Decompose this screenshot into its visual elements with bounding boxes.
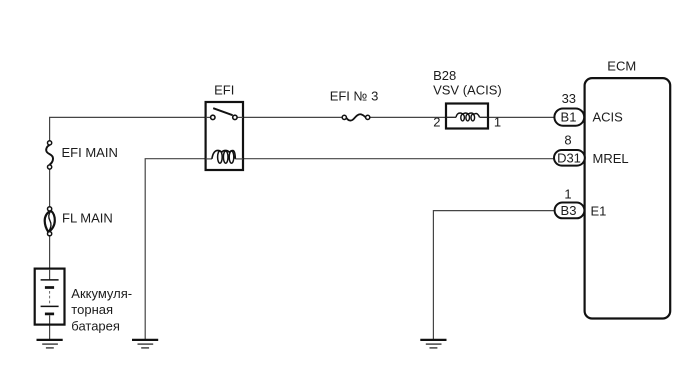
- VSV (ACIS): box: [446, 104, 488, 129]
- wire: VSV terminal 1 to ECM pin B1: [488, 116, 555, 118]
- fusible link: FL MAIN: [45, 207, 55, 236]
- svg-text:D31: D31: [557, 150, 581, 165]
- svg-text:33: 33: [562, 91, 576, 106]
- svg-text:Аккумуля-: Аккумуля-: [71, 286, 132, 301]
- svg-text:VSV (ACIS): VSV (ACIS): [433, 82, 502, 97]
- wire: battery negative to ground: [49, 325, 51, 340]
- wire: between EFI MAIN and FL MAIN fuses: [49, 169, 51, 207]
- svg-text:1: 1: [564, 187, 571, 202]
- svg-text:ECM: ECM: [607, 58, 636, 73]
- wire: relay coil to ECM pin D31: [243, 158, 554, 160]
- wire: relay contact output to fuse EFI No.3: [243, 116, 342, 118]
- svg-text:батарея: батарея: [71, 318, 120, 333]
- svg-text:B1: B1: [561, 109, 577, 124]
- svg-text:ACIS: ACIS: [593, 110, 624, 125]
- svg-text:FL MAIN: FL MAIN: [62, 211, 113, 226]
- fuse: EFI MAIN: [46, 141, 53, 169]
- wire: VSV internal stubs: [446, 116, 456, 118]
- relay EFI: switch blade: [213, 108, 232, 115]
- ground: relay coil ground: [132, 340, 158, 348]
- connector pin B3 (ECM): [555, 203, 585, 219]
- svg-text:8: 8: [564, 133, 571, 148]
- svg-text:B28: B28: [433, 68, 456, 83]
- ECM: box: [585, 78, 671, 318]
- svg-text:EFI: EFI: [214, 83, 234, 98]
- ground: ECM E1 ground: [420, 340, 446, 348]
- wire: relay coil to ground (left drop): [145, 159, 205, 340]
- svg-text:MREL: MREL: [593, 151, 629, 166]
- wire: fuse EFI No.3 to VSV terminal 2: [370, 116, 446, 118]
- relay EFI: contact circles: [211, 115, 215, 119]
- relay EFI: box: [206, 102, 243, 170]
- wire: FL MAIN fuse to battery: [49, 236, 51, 269]
- connector pin D31 (ECM): [554, 150, 585, 166]
- wire: relay internal coil stubs: [206, 158, 212, 160]
- ground: battery ground: [37, 340, 63, 348]
- svg-text:B3: B3: [561, 203, 577, 218]
- connector pin B1 (ECM): [554, 109, 584, 126]
- battery: storage battery: [35, 269, 65, 325]
- svg-text:EFI № 3: EFI № 3: [330, 89, 379, 104]
- svg-text:EFI MAIN: EFI MAIN: [62, 145, 118, 160]
- svg-text:торная: торная: [71, 302, 113, 317]
- wire: battery + feed up left side and across to EFI relay: [50, 117, 206, 141]
- svg-text:2: 2: [433, 114, 440, 129]
- VSV (ACIS): coil winding: [456, 113, 480, 121]
- fuse: EFI No.3: [342, 114, 370, 120]
- wire: ECM pin B3 (E1) to ground: [433, 211, 554, 340]
- svg-text:E1: E1: [591, 203, 607, 218]
- relay EFI: coil winding: [212, 150, 235, 163]
- wire: relay internal contact stubs: [206, 116, 211, 118]
- svg-text:1: 1: [494, 114, 501, 129]
